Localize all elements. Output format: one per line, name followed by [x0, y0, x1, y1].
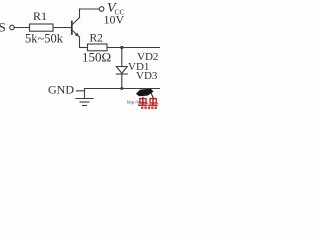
svg-text:R1: R1	[33, 9, 47, 23]
label VD3	[136, 70, 158, 82]
svg-text:VD3: VD3	[136, 70, 158, 82]
junction	[120, 46, 123, 49]
svg-text:R2: R2	[90, 33, 104, 45]
label R2	[90, 33, 104, 45]
label VD1	[128, 61, 149, 73]
wire	[54, 27, 72, 29]
watermark	[127, 89, 158, 109]
label R1	[33, 9, 47, 23]
svg-text:10V: 10V	[104, 13, 125, 27]
value 10V	[104, 13, 125, 27]
wire	[121, 48, 123, 67]
label Vcc	[107, 1, 125, 16]
value 150ohm	[82, 50, 111, 65]
value 5k~50k	[25, 32, 64, 46]
wire (GND leader)	[77, 90, 85, 92]
svg-text:S: S	[0, 20, 6, 35]
ground	[76, 89, 93, 106]
svg-text:150Ω: 150Ω	[82, 50, 111, 65]
terminal Vcc	[99, 7, 104, 12]
wire	[121, 74, 123, 89]
svg-text:VD2: VD2	[137, 51, 158, 63]
transistor V (NPN)	[72, 9, 80, 48]
wire	[108, 47, 161, 49]
diode VD1	[116, 67, 127, 75]
node S	[0, 20, 6, 35]
terminal (input S)	[10, 25, 15, 30]
label VD2	[137, 51, 158, 63]
label GND	[48, 83, 74, 97]
wire (ground rail)	[85, 88, 161, 90]
svg-text:5k~50k: 5k~50k	[25, 32, 64, 46]
junction	[120, 87, 123, 90]
wire	[80, 8, 100, 10]
resistor R2	[88, 44, 108, 51]
wire	[14, 27, 29, 29]
wire	[80, 47, 88, 49]
svg-text:hltp:/lwww.: hltp:/lwww.	[127, 100, 148, 105]
svg-text:GND: GND	[48, 83, 74, 97]
resistor R1	[30, 24, 54, 31]
